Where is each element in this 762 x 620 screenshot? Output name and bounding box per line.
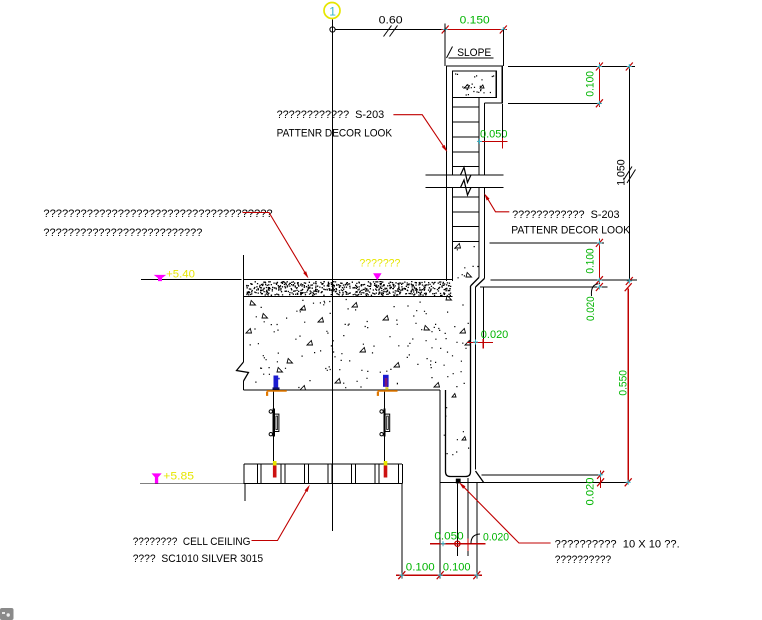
svg-text:0.100: 0.100 [584, 71, 596, 97]
svg-text:0.150: 0.150 [460, 15, 490, 27]
svg-text:SLOPE: SLOPE [457, 47, 491, 59]
svg-text:0.100: 0.100 [406, 562, 435, 574]
svg-text:??????????????????????????: ?????????????????????????? [43, 227, 202, 239]
svg-text:?????????? 10 X 10 ??.: ?????????? 10 X 10 ??. [555, 539, 680, 551]
svg-text:0.100: 0.100 [584, 248, 596, 273]
svg-text:0.050: 0.050 [434, 530, 463, 542]
svg-text:0.020: 0.020 [483, 532, 509, 544]
svg-text:??????????????????????????????: ????????????????????????????????????? [43, 208, 272, 220]
svg-text:1: 1 [329, 4, 336, 18]
svg-text:???????? CELL CEILING: ???????? CELL CEILING [133, 536, 251, 548]
svg-text:PATTENR DECOR LOOK: PATTENR DECOR LOOK [511, 224, 631, 236]
svg-text:???????: ??????? [359, 257, 400, 269]
svg-text:???????????? S-203: ???????????? S-203 [512, 209, 620, 221]
svg-text:???????????? S-203: ???????????? S-203 [277, 109, 385, 121]
svg-text:0.020: 0.020 [481, 329, 509, 341]
svg-text:???? SC1010 SILVER 3015: ???? SC1010 SILVER 3015 [133, 553, 263, 565]
svg-text:1.050: 1.050 [616, 159, 628, 185]
svg-text:0.020: 0.020 [585, 296, 597, 321]
svg-text:+5.85: +5.85 [163, 471, 194, 483]
svg-text:0.050: 0.050 [480, 129, 508, 141]
svg-text:0.100: 0.100 [443, 562, 471, 574]
svg-text:PATTENR DECOR LOOK: PATTENR DECOR LOOK [277, 128, 393, 140]
svg-text:0.550: 0.550 [618, 370, 630, 396]
svg-text:??????????: ?????????? [555, 554, 612, 566]
svg-text:0.60: 0.60 [379, 15, 403, 27]
svg-text:0.020: 0.020 [585, 478, 597, 506]
svg-text:+5.40: +5.40 [166, 268, 195, 280]
